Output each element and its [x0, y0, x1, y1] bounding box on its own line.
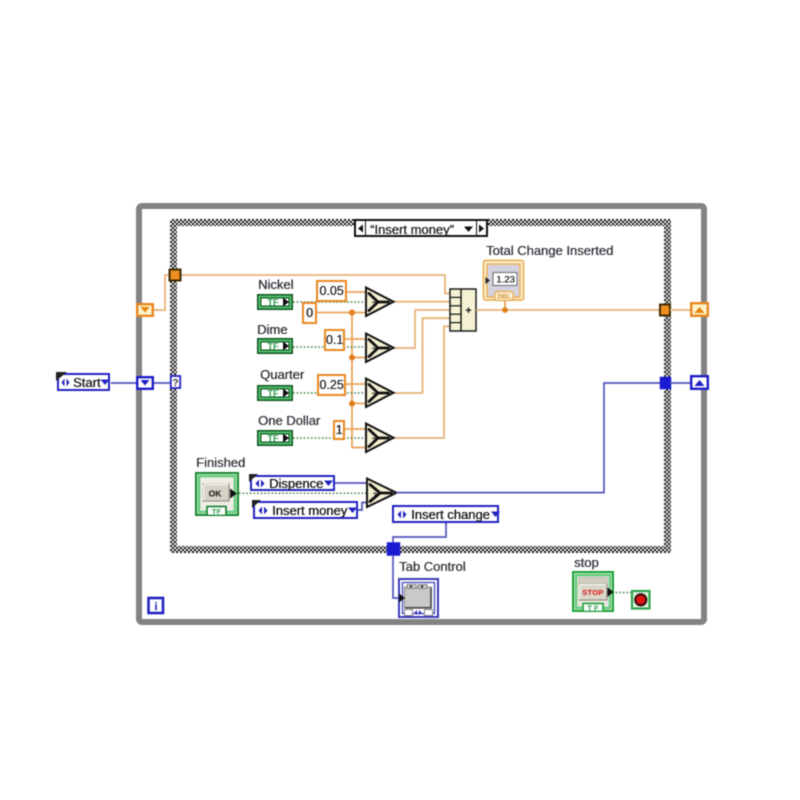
tunnel (blue, case right border): [661, 378, 671, 389]
case structure border: [170, 219, 671, 553]
svg-text:OK: OK: [209, 489, 223, 499]
iteration terminal i: [149, 598, 164, 613]
numeric constant 0.05: [316, 280, 347, 302]
label Total Change Inserted: [486, 244, 613, 257]
wire: boolean One Dollar to select4 s: [293, 437, 366, 439]
wire: select1 out to add cell2: [393, 301, 450, 303]
boolean terminal Nickel TF: [257, 294, 293, 310]
wire: branch to select4 f: [352, 447, 366, 449]
label anchor fold (Dispence): [249, 474, 258, 482]
wire: boolean Dime to select2 s: [293, 346, 366, 348]
shift register left (blue, down arrow): [137, 377, 153, 389]
Total Change Inserted indicator: [484, 261, 524, 301]
select node 5: [367, 479, 397, 508]
boolean terminal One Dollar TF: [257, 430, 293, 446]
wire: select3 out to add cell4: [393, 318, 450, 393]
case selector terminal ?: [171, 376, 180, 389]
wire: 0.25 to select3 t: [346, 383, 366, 385]
label Tab Control: [399, 560, 465, 573]
select node 4: [366, 424, 394, 453]
tunnel (blue, case bottom border): [388, 543, 400, 555]
wire: top orange run from tunnel to add node input 1: [179, 275, 450, 293]
svg-text:+: +: [465, 305, 471, 317]
svg-text:?: ?: [372, 436, 377, 445]
numeric constant 0.1: [324, 329, 345, 351]
svg-text:?: ?: [373, 491, 378, 500]
boolean button stop: [572, 571, 614, 612]
boolean button Finished (OK): [195, 472, 239, 516]
terminal Tab Control: [398, 578, 439, 618]
wire: boolean stop to loop condition: [612, 592, 633, 594]
select node 1: [366, 288, 394, 317]
junction dot: [349, 355, 355, 361]
numeric constant 1: [333, 420, 345, 440]
enum control Start: [57, 373, 110, 391]
wire: bottom select out to blue tunnel: [396, 383, 661, 493]
svg-text:TF: TF: [212, 507, 222, 516]
wire: branch to select2 f: [352, 357, 366, 359]
select node 3: [366, 379, 394, 408]
label Quarter: [260, 368, 304, 381]
wire: Start to blue shift register: [111, 382, 137, 384]
junction dot: [502, 307, 508, 313]
wire: vertical 0-branch: [351, 313, 353, 449]
wire: branch to select3 f: [352, 403, 366, 405]
svg-text:TF: TF: [268, 389, 279, 399]
wire: Insert money to bottom select f: [358, 503, 368, 511]
svg-text:?: ?: [372, 346, 377, 355]
svg-text:T F: T F: [587, 604, 599, 613]
label One Dollar: [258, 414, 320, 427]
wire: boolean Nickel to select1 s: [293, 301, 366, 303]
enum constant Dispence: [250, 475, 335, 491]
label Nickel: [258, 278, 293, 291]
while loop: [139, 206, 704, 622]
shift register left (orange, down arrow): [137, 304, 153, 316]
enum constant Insert change: [392, 505, 499, 523]
wire: select4 out to add cell5: [393, 326, 450, 438]
case selector label "Insert money": [354, 219, 488, 237]
svg-text:TF: TF: [268, 342, 279, 352]
numeric constant 0.25: [317, 374, 346, 396]
wire: 1 to select4 t: [345, 428, 366, 430]
compound arithmetic add node: [450, 289, 476, 331]
junction dot: [349, 401, 355, 407]
loop condition terminal (stop sign): [632, 591, 650, 609]
boolean terminal Quarter TF: [257, 385, 293, 401]
shift register right (orange, up arrow): [691, 303, 708, 316]
wire: blue shift register to case selector: [153, 382, 171, 384]
wire: left shift register to tunnel: [154, 275, 172, 310]
numeric constant 0: [302, 302, 317, 324]
wire: Insert change down to tab tunnel: [393, 523, 446, 544]
wire: tunnel to right shift register: [670, 309, 691, 311]
shift register right (blue, up arrow): [691, 376, 708, 389]
wire: tunnel down to Tab Control terminal: [393, 555, 399, 598]
junction dot: [349, 310, 355, 316]
svg-text:?: ?: [372, 300, 377, 309]
select node 2: [366, 334, 394, 363]
wire: add output to right tunnel: [476, 309, 661, 311]
label Dime: [257, 323, 287, 336]
svg-text:DBL: DBL: [497, 294, 510, 301]
wire: branch up to Total Change Inserted: [504, 296, 506, 310]
label stop: [574, 556, 599, 569]
wire: boolean Quarter to select3 s: [293, 392, 366, 394]
wire: 0.1 to select2 t: [345, 338, 366, 340]
wire: boolean Finished to bottom select s: [239, 492, 368, 494]
svg-text:TF: TF: [268, 434, 279, 444]
svg-text:?: ?: [172, 378, 178, 389]
wire: Dispence to bottom select t: [335, 482, 368, 484]
svg-text:?: ?: [372, 391, 377, 400]
wire: select2 out to add cell3: [393, 310, 450, 348]
wire: 0.05 to select1 t: [347, 291, 366, 293]
label Finished: [196, 456, 245, 469]
boolean terminal Dime TF: [257, 338, 293, 354]
wire: blue tunnel to right shift register: [670, 382, 691, 384]
wire: 0 to select1 f with branch: [317, 312, 366, 314]
tunnel (orange, case left border): [170, 270, 181, 281]
svg-text:TF: TF: [268, 298, 279, 308]
svg-text:1.23: 1.23: [496, 275, 515, 286]
svg-text:STOP: STOP: [582, 588, 603, 597]
label anchor fold (Insert money): [252, 500, 261, 508]
label anchor fold (Start): [56, 372, 67, 381]
tunnel (orange, case right border): [660, 305, 670, 316]
enum constant Insert money: [253, 501, 358, 519]
